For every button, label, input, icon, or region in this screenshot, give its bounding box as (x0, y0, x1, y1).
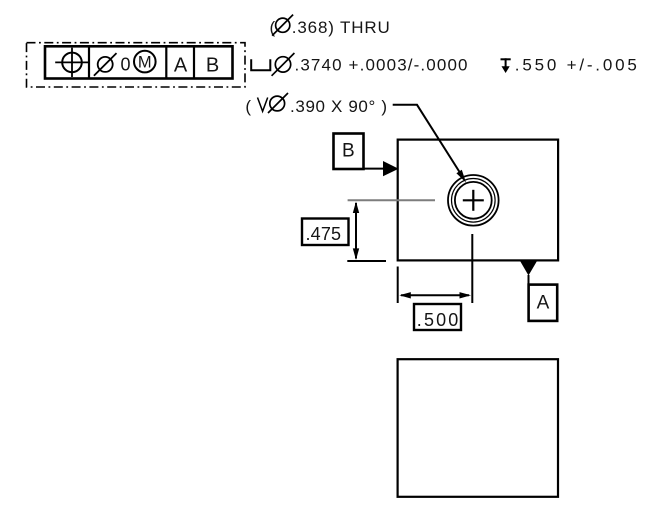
svg-text:B: B (206, 55, 219, 77)
svg-text:.3740 +.0003/-.0000: .3740 +.0003/-.0000 (295, 55, 468, 74)
svg-text:.368) THRU: .368) THRU (292, 18, 390, 37)
svg-text:A: A (174, 55, 188, 77)
svg-text:B: B (342, 141, 355, 162)
svg-text:.500: .500 (417, 310, 459, 330)
svg-text:A: A (537, 293, 550, 314)
svg-text:(: ( (245, 97, 251, 116)
svg-text:.390 X 90° ): .390 X 90° ) (290, 97, 387, 116)
svg-text:M: M (138, 54, 152, 72)
svg-text:.550 +/-.005: .550 +/-.005 (515, 55, 637, 74)
svg-text:.475: .475 (306, 224, 342, 244)
svg-text:0: 0 (121, 55, 131, 75)
